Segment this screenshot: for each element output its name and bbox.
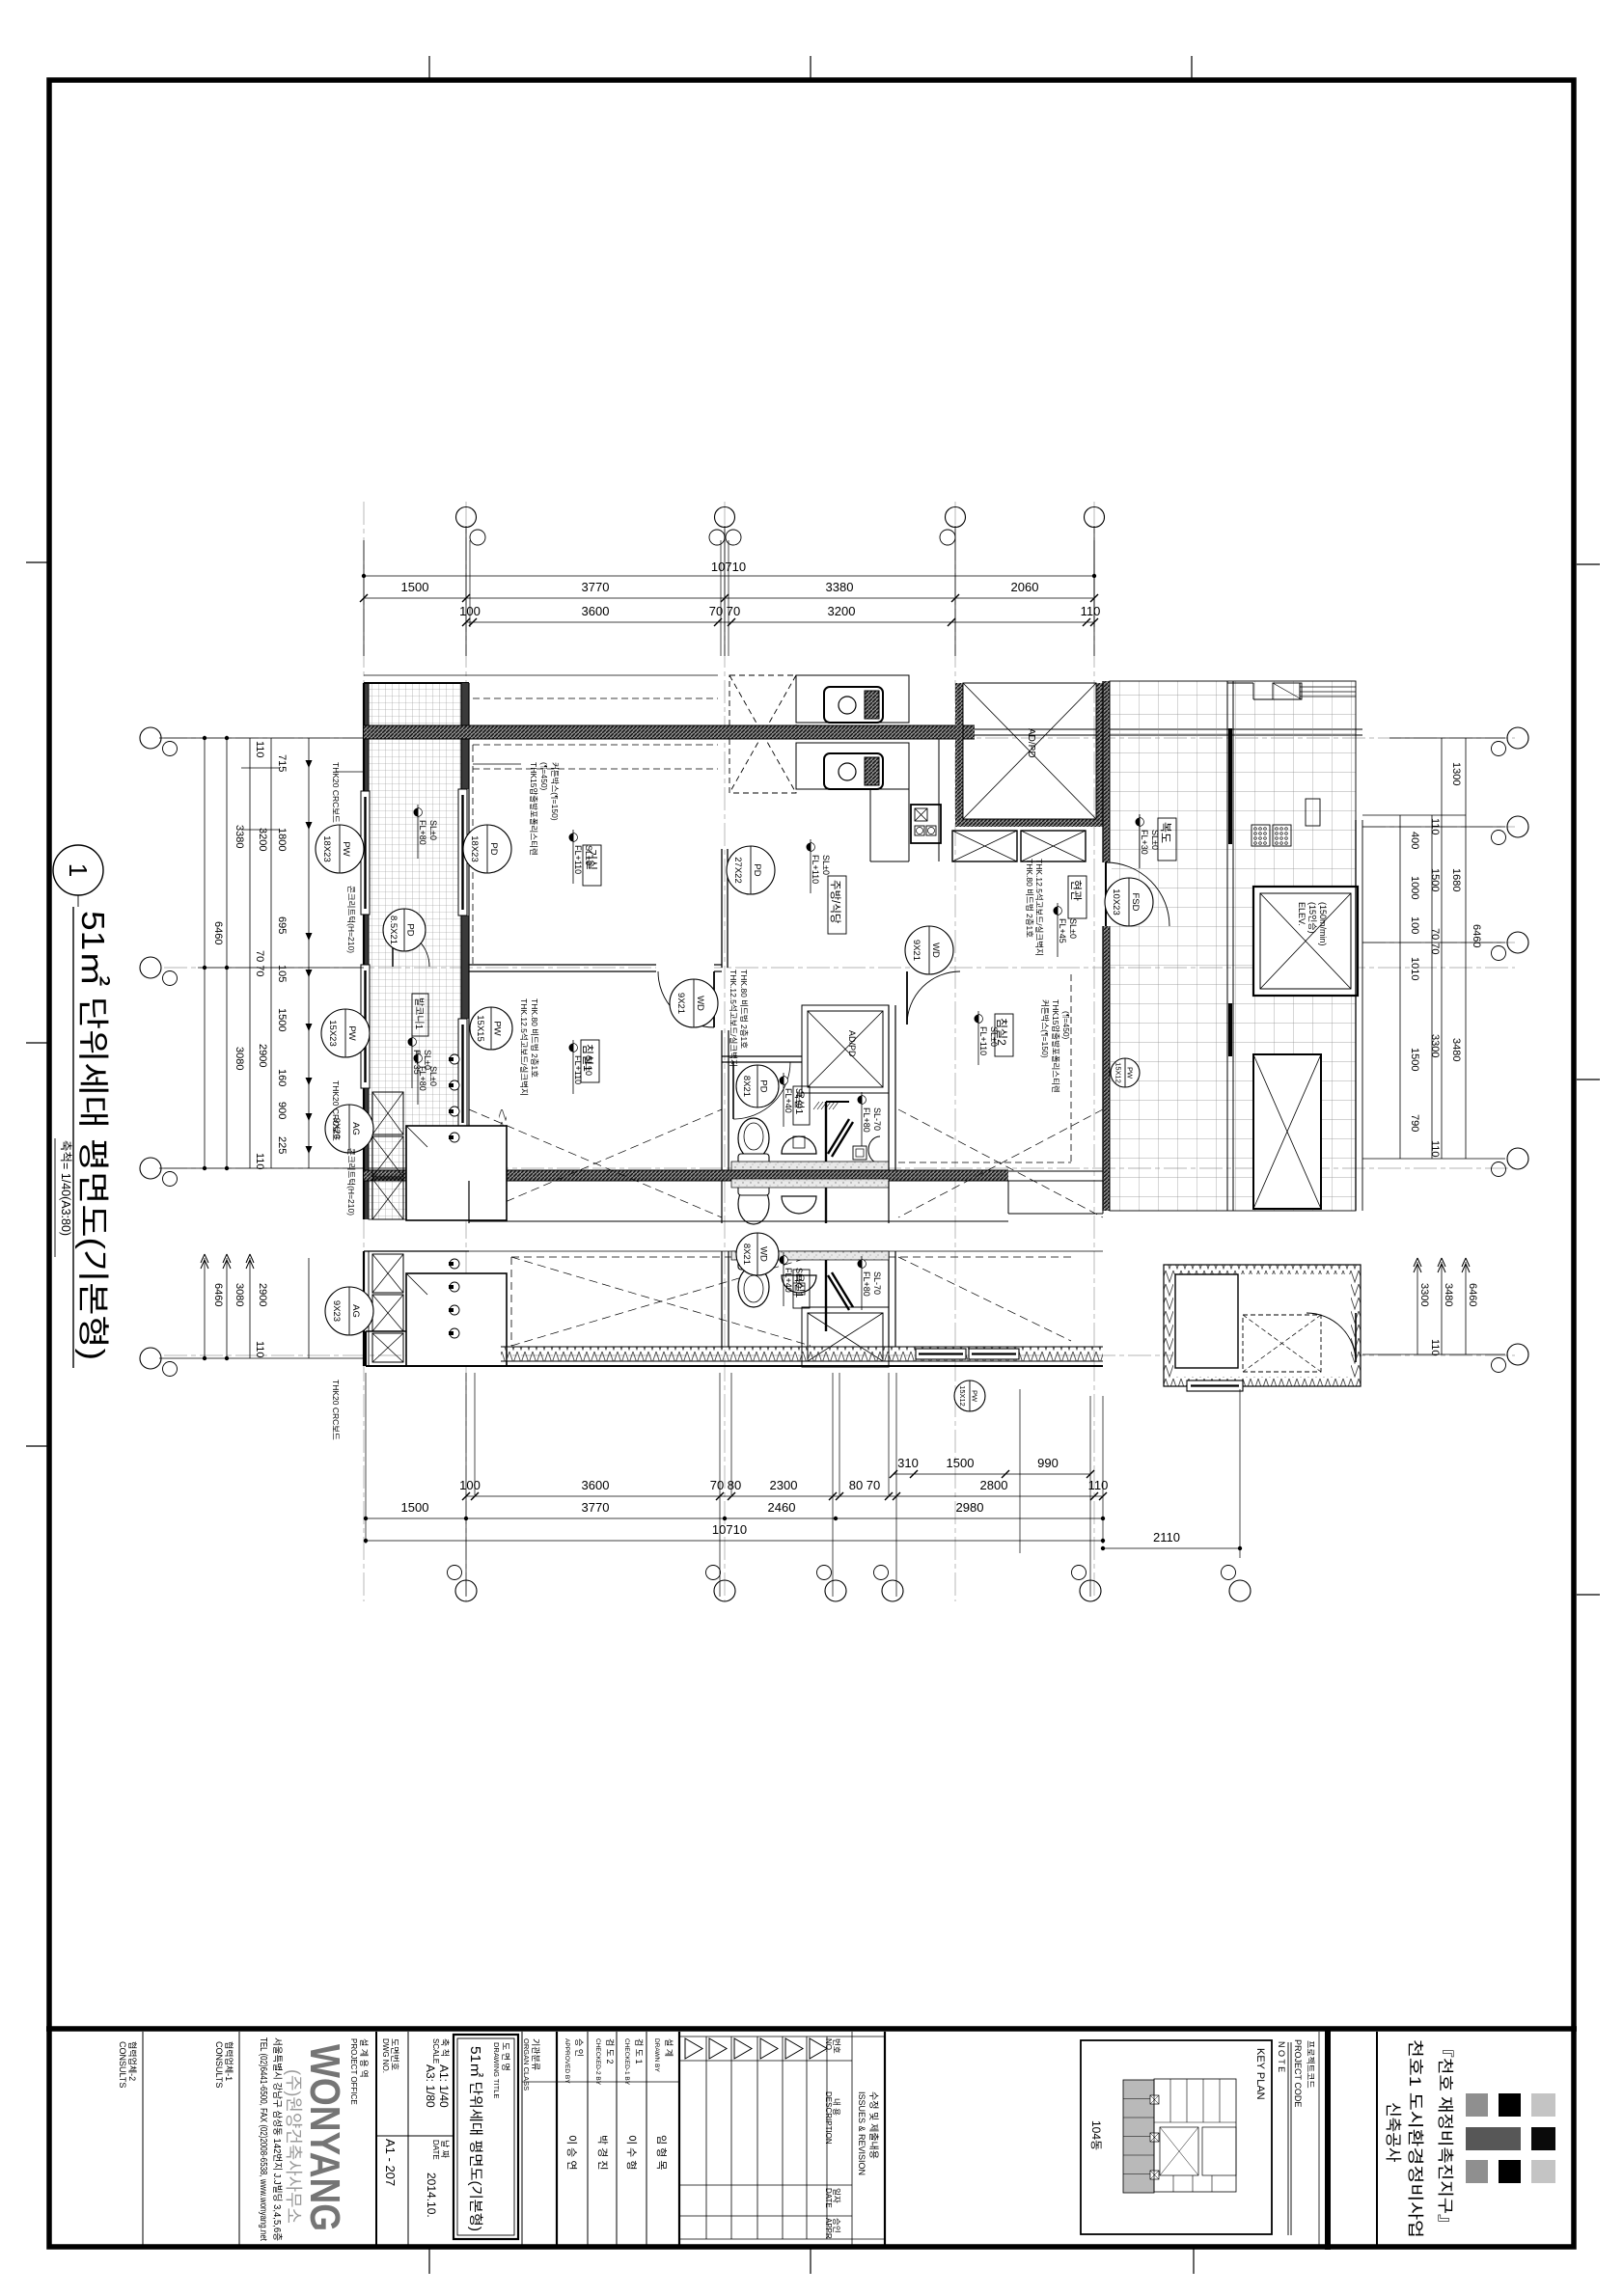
svg-text:10710: 10710 [712, 1522, 747, 1537]
bathroom label 욕실1 [793, 1086, 810, 1125]
grid centerlines [164, 502, 1515, 1601]
svg-text:FL+45: FL+45 [1058, 918, 1067, 943]
svg-text:FL+80: FL+80 [418, 1066, 427, 1091]
lower left wall [363, 1251, 365, 1366]
AD box (big white) [406, 1126, 507, 1220]
svg-text:THK.12.5석고보드/실크벽지: THK.12.5석고보드/실크벽지 [1034, 859, 1044, 956]
lower riser circles [450, 1259, 459, 1269]
svg-text:3600: 3600 [582, 604, 610, 618]
svg-text:축척= 1/40(A3:80): 축척= 1/40(A3:80) [59, 1140, 72, 1236]
entry strip walls below band [1007, 1181, 1009, 1214]
lower balcony top line [364, 1250, 469, 1252]
sign label underline [522, 2081, 679, 2083]
svg-text:8.5X21: 8.5X21 [388, 916, 399, 944]
svg-text:715: 715 [276, 754, 288, 772]
svg-text:(¶=450): (¶=450) [539, 762, 549, 791]
band B thin continuation right [1008, 1170, 1103, 1172]
svg-text:콘크리트턱(H=210): 콘크리트턱(H=210) [346, 1148, 356, 1216]
entry FL+45 [1054, 907, 1062, 916]
svg-text:박 경 진: 박 경 진 [596, 2135, 609, 2170]
svg-text:160: 160 [276, 1069, 288, 1086]
bedroom2 label [995, 1014, 1013, 1056]
svg-text:PD: PD [405, 923, 416, 936]
svg-text:900: 900 [276, 1102, 288, 1119]
svg-text:신축공사: 신축공사 [1384, 2102, 1402, 2163]
revision triangles [685, 2038, 702, 2059]
svg-text:설 계: 설 계 [664, 2038, 674, 2057]
svg-text:100: 100 [459, 1478, 481, 1492]
svg-text:A1: 1/40: A1: 1/40 [437, 2064, 451, 2108]
lower bath sill [731, 1251, 889, 1260]
svg-text:DRAWN BY: DRAWN BY [653, 2038, 660, 2072]
revision table [705, 2036, 707, 2239]
title number circle [53, 845, 103, 895]
svg-text:2460: 2460 [768, 1500, 796, 1515]
left chain segment line [308, 738, 310, 1168]
riser circles [450, 1054, 459, 1064]
svg-text:15X15: 15X15 [475, 1015, 485, 1041]
bedroom1 label [581, 1040, 599, 1082]
lower concrete curb boxes [372, 1254, 403, 1293]
sign col CHECKED-2 BY [616, 2032, 618, 2247]
svg-text:THK.80 비드법 2층1호: THK.80 비드법 2층1호 [530, 998, 539, 1078]
svg-text:날 짜: 날 짜 [440, 2140, 450, 2159]
dim 10710 bottom [366, 1540, 1103, 1542]
bottom grid stems [365, 1373, 367, 1544]
sign col DRAWN BY [678, 2032, 680, 2247]
svg-text:6460: 6460 [212, 1283, 224, 1306]
PW 15X12 lower tag [954, 1380, 985, 1411]
svg-text:3080: 3080 [234, 1283, 245, 1306]
corridor lobby partition [1226, 681, 1228, 1211]
svg-text:SL-70: SL-70 [872, 1271, 882, 1295]
counter leg [869, 789, 871, 861]
svg-text:THK15압출발포폴리스티렌: THK15압출발포폴리스티렌 [529, 762, 538, 856]
left lower dims [204, 1258, 206, 1358]
window balcony/living upper [458, 789, 467, 916]
svg-text:SL±0: SL±0 [989, 1026, 999, 1047]
svg-text:PD: PD [488, 842, 499, 855]
svg-text:110: 110 [1429, 1339, 1441, 1356]
AD/PD bottom wall [955, 819, 1102, 827]
svg-text:15X23: 15X23 [327, 1020, 338, 1046]
corridor tile [1110, 681, 1356, 1211]
bottom left step wall [366, 1330, 406, 1332]
door opening [1099, 862, 1112, 926]
top grid bubbles [456, 507, 477, 528]
svg-text:18X23: 18X23 [469, 835, 480, 861]
svg-text:310: 310 [897, 1456, 919, 1470]
svg-text:AG: AG [350, 1122, 361, 1135]
svg-text:서울특별시 강남구 삼성동 142번지 J.J빌딩 3,4: 서울특별시 강남구 삼성동 142번지 J.J빌딩 3,4,5,6층 [271, 2037, 283, 2241]
svg-text:FL+80: FL+80 [418, 820, 427, 845]
drawing title box [454, 2035, 518, 2239]
dim row B bottom [466, 1495, 1103, 1497]
living curtain box dashed [473, 744, 718, 746]
svg-text:FL+40: FL+40 [784, 1088, 793, 1113]
organ class column [521, 2032, 523, 2247]
svg-text:9X21: 9X21 [911, 940, 922, 961]
lower bath walls [721, 1251, 723, 1347]
shoe closet 2 [1021, 831, 1086, 861]
svg-text:3600: 3600 [582, 1478, 610, 1492]
kitchen right wall [938, 739, 940, 861]
party wall top hatched [364, 725, 975, 739]
corridor label 복도 [1158, 818, 1176, 861]
towel arc [868, 1136, 880, 1163]
living label 거실 [583, 845, 601, 886]
svg-text:695: 695 [276, 916, 288, 934]
toilet [738, 1118, 769, 1159]
svg-text:FL+30: FL+30 [1140, 830, 1149, 855]
svg-text:THK.12.5석고보드/실크벽지: THK.12.5석고보드/실크벽지 [729, 970, 738, 1067]
corridor top wall thin [975, 728, 1362, 730]
bathroom door + arc [732, 1062, 734, 1119]
svg-text:110: 110 [1081, 604, 1101, 618]
lower FL marker [858, 1260, 867, 1269]
svg-text:FL+80: FL+80 [862, 1107, 871, 1133]
svg-text:3770: 3770 [582, 1500, 610, 1515]
svg-text:DESCRIPTION: DESCRIPTION [824, 2091, 833, 2145]
svg-text:PD: PD [758, 1080, 769, 1092]
svg-text:FL+110: FL+110 [573, 845, 583, 874]
svg-text:2900: 2900 [257, 1283, 268, 1306]
bathroom left wall [721, 1030, 723, 1170]
svg-text:AG: AG [350, 1304, 361, 1318]
AD/PD core (bath) [802, 1005, 889, 1093]
svg-text:THK20 CRC보드: THK20 CRC보드 [331, 1080, 341, 1141]
svg-text:DATE: DATE [824, 2188, 833, 2208]
svg-text:주방/식당: 주방/식당 [829, 880, 841, 924]
mail grids [1252, 825, 1291, 846]
inner white rect [1175, 1274, 1238, 1368]
svg-text:CHECKED-2 BY: CHECKED-2 BY [594, 2038, 601, 2086]
thick divider [1325, 2029, 1331, 2250]
svg-text:NO.: NO. [824, 2038, 833, 2052]
party wall (bottom of unit, hatched) [364, 1170, 1008, 1181]
lower basin [782, 1275, 816, 1293]
lower toilet [738, 1267, 769, 1307]
svg-text:PROJECT CODE: PROJECT CODE [1293, 2039, 1303, 2107]
svg-text:3080: 3080 [234, 1047, 245, 1070]
svg-text:검 도 2: 검 도 2 [605, 2038, 616, 2064]
svg-text:PW: PW [492, 1021, 503, 1035]
svg-text:SCALE: SCALE [431, 2038, 440, 2064]
svg-text:발코니1: 발코니1 [413, 998, 425, 1030]
shower drain [853, 1146, 867, 1160]
svg-text:임 형 목: 임 형 목 [655, 2135, 668, 2170]
svg-text:ELEV.: ELEV. [1297, 902, 1307, 926]
bottom windows [916, 1349, 966, 1359]
svg-text:2110: 2110 [1153, 1530, 1180, 1544]
edge ticks right [1577, 563, 1600, 565]
svg-text:9X23: 9X23 [331, 1300, 342, 1322]
svg-text:3380: 3380 [826, 580, 854, 594]
svg-text:400: 400 [1409, 832, 1420, 849]
wash basin [782, 1136, 816, 1154]
corridor FL+30 [1136, 818, 1144, 827]
svg-text:천호1 도시환경정비사업: 천호1 도시환경정비사업 [1406, 2039, 1424, 2238]
AD/PD left wall [955, 683, 963, 827]
lower shower partition [825, 1260, 827, 1331]
kitchen label 주방/식당 [828, 876, 846, 934]
door arc lower right [1355, 1313, 1357, 1362]
svg-text:도 면 명: 도 면 명 [501, 2042, 510, 2071]
svg-text:프로젝트코드: 프로젝트코드 [1306, 2040, 1315, 2089]
insul edge of AD box [499, 1109, 507, 1220]
svg-text:8X21: 8X21 [741, 1244, 752, 1265]
svg-text:PD: PD [752, 863, 762, 876]
lower shaft X [1253, 1054, 1321, 1209]
window balcony/living lower [458, 1019, 467, 1129]
svg-text:N O T E: N O T E [1277, 2041, 1286, 2072]
svg-text:PROJECT OFFICE: PROJECT OFFICE [349, 2038, 358, 2105]
svg-text:9X21: 9X21 [675, 993, 686, 1014]
wall living-bedroom1 [469, 964, 722, 966]
svg-text:『천호 재정비촉진지구』: 『천호 재정비촉진지구』 [1436, 2039, 1454, 2232]
svg-text:CONSULTS: CONSULTS [214, 2041, 224, 2088]
svg-text:2800: 2800 [980, 1478, 1008, 1492]
bathroom top wall [722, 1055, 802, 1057]
svg-text:FL+40: FL+40 [784, 1268, 793, 1293]
FSD tag [1105, 878, 1153, 926]
left verticals [204, 738, 206, 1168]
svg-text:70 70: 70 70 [1429, 928, 1441, 955]
PD 27X22 tag [727, 846, 775, 894]
sign col APPROVED BY [587, 2032, 589, 2247]
svg-text:51㎡ 단위세대 평면도(기본형): 51㎡ 단위세대 평면도(기본형) [467, 2046, 483, 2231]
right project box [1376, 2032, 1378, 2247]
bottom wall outline [366, 1365, 1103, 1367]
kitchen FL marker [807, 843, 815, 852]
svg-text:(150m/min): (150m/min) [1318, 902, 1328, 946]
svg-text:70 80: 70 80 [710, 1478, 742, 1492]
svg-text:990: 990 [1037, 1456, 1059, 1470]
edge ticks top [428, 56, 430, 80]
svg-text:100: 100 [1409, 916, 1420, 934]
consults-1 column [238, 2032, 240, 2247]
wall balcony/living [460, 683, 462, 1219]
svg-text:THK.80 비드법 2층1호: THK.80 비드법 2층1호 [1025, 859, 1034, 938]
svg-text:(15인승): (15인승) [1307, 902, 1317, 934]
svg-text:1500: 1500 [276, 1008, 288, 1031]
sign box [1306, 799, 1320, 826]
corridor top beam/stair [1227, 682, 1253, 684]
svg-text:FL+110: FL+110 [573, 1055, 583, 1084]
svg-text:110: 110 [254, 1153, 265, 1170]
svg-text:105: 105 [276, 965, 288, 982]
dim row C bottom [366, 1517, 1103, 1519]
svg-text:DWG NO.: DWG NO. [381, 2038, 390, 2073]
svg-text:FL+110: FL+110 [811, 855, 820, 884]
svg-text:SL±0: SL±0 [428, 1066, 438, 1086]
kitchen counter [796, 743, 909, 789]
svg-text:27X22: 27X22 [732, 857, 743, 883]
svg-text:PW: PW [1125, 1067, 1134, 1080]
ELEV shaft [1253, 887, 1358, 996]
divider [375, 2032, 377, 2247]
svg-text:PW: PW [341, 841, 351, 856]
svg-text:커튼박스(¶=150): 커튼박스(¶=150) [550, 762, 560, 821]
balcony label [412, 994, 428, 1036]
svg-text:15X12: 15X12 [958, 1385, 967, 1407]
svg-text:PW: PW [346, 1025, 357, 1040]
AD/PD X [963, 683, 1096, 819]
wall balcony/living poche [461, 683, 469, 789]
left horizontals [159, 737, 364, 739]
lower dashed outline [511, 1256, 1071, 1258]
svg-text:70 70: 70 70 [254, 950, 265, 977]
svg-text:WONYANG: WONYANG [301, 2044, 348, 2231]
edge ticks bottom [428, 2249, 430, 2274]
svg-text:CONSULTS: CONSULTS [118, 2041, 127, 2088]
svg-text:ORGAN CLASS: ORGAN CLASS [522, 2038, 531, 2091]
bedroom1 door [713, 971, 715, 1027]
svg-text:3300: 3300 [1418, 1283, 1430, 1306]
svg-text:18X23: 18X23 [321, 835, 332, 861]
svg-text:SL±0: SL±0 [584, 845, 593, 865]
svg-text:1500: 1500 [1409, 1048, 1420, 1071]
living FL marker [569, 834, 578, 842]
key plan box [1081, 2040, 1272, 2234]
balcony tile mirror below band [369, 1181, 461, 1219]
bathroom right wall [888, 1005, 890, 1170]
svg-text:이 수 형: 이 수 형 [625, 2135, 638, 2170]
svg-text:110: 110 [1088, 1478, 1109, 1492]
svg-text:이 승 연: 이 승 연 [565, 2135, 578, 2170]
bedroom2 door [906, 971, 908, 1025]
left grid bubbles [140, 727, 161, 749]
svg-text:1500: 1500 [1429, 868, 1441, 891]
svg-text:수정 및 제출내용: 수정 및 제출내용 [867, 2091, 879, 2159]
svg-text:51㎡ 단위세대 평면도(기본형): 51㎡ 단위세대 평면도(기본형) [75, 911, 111, 1360]
corridor left wall [1103, 681, 1110, 862]
svg-text:80 70: 80 70 [849, 1478, 881, 1492]
svg-text:협력업체-2: 협력업체-2 [127, 2041, 138, 2081]
svg-text:110: 110 [254, 1341, 265, 1358]
svg-text:TEL (02)6441-6500, FAX (02)200: TEL (02)6441-6500, FAX (02)2008-6538, ww… [258, 2037, 268, 2241]
concrete curb boxes [372, 1092, 403, 1134]
consults-2 column [142, 2032, 144, 2247]
svg-text:도면번호: 도면번호 [390, 2038, 399, 2070]
entry door FSD [1105, 862, 1107, 926]
svg-text:1500: 1500 [947, 1456, 975, 1470]
lower block top edge [364, 1250, 1103, 1252]
svg-text:3480: 3480 [1450, 1038, 1462, 1061]
svg-text:콘크리트턱(H=210): 콘크리트턱(H=210) [346, 886, 356, 953]
outer wall window lower [361, 965, 370, 1088]
balcony outer wall poche [364, 683, 369, 791]
svg-text:기관분류: 기관분류 [531, 2038, 540, 2070]
svg-text:(¶=450): (¶=450) [1061, 1011, 1071, 1040]
kitchen sink [824, 753, 883, 789]
neighbor kitchen counter [796, 675, 909, 723]
balcony outer wall [363, 683, 365, 1219]
svg-text:KEY PLAN: KEY PLAN [1254, 2048, 1266, 2100]
svg-text:SL±0: SL±0 [1068, 918, 1078, 939]
svg-text:1500: 1500 [401, 1500, 429, 1515]
svg-text:8X21: 8X21 [741, 1076, 752, 1097]
svg-text:3200: 3200 [828, 604, 856, 618]
dim row2 top [364, 597, 1094, 599]
dim row A bottom (310/1500/990) [894, 1473, 1090, 1475]
gas range [911, 805, 941, 843]
svg-text:설 계 용 역: 설 계 용 역 [359, 2038, 370, 2078]
svg-text:SL-70: SL-70 [872, 1107, 882, 1131]
svg-text:A3: 1/80: A3: 1/80 [424, 2064, 437, 2108]
svg-text:FL+80: FL+80 [862, 1271, 871, 1297]
svg-text:AD/PD: AD/PD [1026, 728, 1036, 758]
svg-text:1300: 1300 [1450, 762, 1462, 785]
svg-text:AD/PD: AD/PD [847, 1030, 857, 1057]
svg-text:2980: 2980 [956, 1500, 984, 1515]
svg-text:3480: 3480 [1443, 1283, 1454, 1306]
small window lower right box [1187, 1380, 1243, 1391]
svg-text:1010: 1010 [1409, 957, 1420, 980]
svg-text:승 인: 승 인 [574, 2038, 584, 2057]
neighbor wardrobe dashed [729, 675, 796, 793]
AG 9X23 lower tag [325, 1287, 373, 1335]
svg-text:THK.12.5석고보드/실크벽지: THK.12.5석고보드/실크벽지 [519, 998, 529, 1096]
AD/PD right wall [1096, 683, 1104, 827]
svg-text:PW: PW [971, 1390, 979, 1403]
corridor right wall [1355, 820, 1357, 1211]
corridor PW tag [1111, 1058, 1140, 1087]
outer wall window upper [361, 791, 370, 915]
entry label 현관 [1068, 876, 1087, 918]
strip top line [46, 2026, 1577, 2032]
svg-text:협력업체-1: 협력업체-1 [224, 2041, 234, 2081]
wall living-kitchen [721, 849, 723, 968]
svg-text:THK20 CRC보드: THK20 CRC보드 [331, 762, 341, 823]
svg-text:THK.80 비드법 2층1호: THK.80 비드법 2층1호 [739, 970, 749, 1049]
scale underline [54, 1138, 56, 1257]
svg-text:SL±0: SL±0 [584, 1055, 593, 1076]
neighbor kitchen sink [824, 687, 883, 723]
svg-text:1680: 1680 [1450, 868, 1462, 891]
balcony tile floor [369, 683, 461, 1168]
checker logo [1466, 2093, 1488, 2117]
svg-text:DATE: DATE [431, 2140, 440, 2160]
svg-text:1500: 1500 [401, 580, 429, 594]
svg-text:THK20 CRC보드: THK20 CRC보드 [331, 1380, 341, 1440]
svg-text:1000: 1000 [1409, 876, 1420, 899]
dim row3 top [466, 621, 1094, 623]
mirrored bath below band [731, 1179, 889, 1224]
shower partition [825, 1102, 827, 1168]
svg-text:1: 1 [64, 863, 93, 877]
svg-text:104동: 104동 [1089, 2120, 1103, 2150]
svg-text:2060: 2060 [1011, 580, 1039, 594]
svg-text:WD: WD [758, 1246, 769, 1262]
svg-text:FL+110: FL+110 [978, 1026, 988, 1055]
svg-text:SL±0: SL±0 [794, 1268, 804, 1288]
bottom exterior wall: insulation band [501, 1347, 1103, 1361]
hatched walls box [1164, 1265, 1361, 1386]
svg-text:2300: 2300 [770, 1478, 798, 1492]
svg-text:790: 790 [1409, 1114, 1420, 1132]
right verticals [1399, 815, 1401, 1159]
svg-text:현관: 현관 [1069, 880, 1083, 901]
lower dashed diagonals [511, 1257, 811, 1346]
svg-text:110: 110 [1429, 818, 1441, 835]
right lower dims [1417, 1262, 1418, 1354]
bedroom2 dashed curtain [1070, 974, 1072, 1162]
svg-text:검 도 1: 검 도 1 [634, 2038, 645, 2064]
svg-text:6460: 6460 [1467, 1283, 1478, 1306]
svg-text:6460: 6460 [212, 921, 224, 944]
edge ticks left [26, 561, 49, 563]
